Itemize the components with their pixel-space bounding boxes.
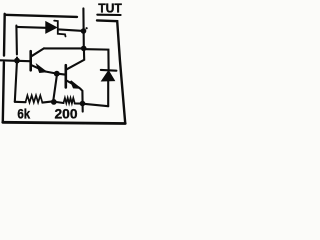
- node: emitter drop x bottom rail junction: [80, 101, 86, 107]
- node: rail x node-vertical junction: [51, 99, 57, 105]
- svg-text:6k: 6k: [17, 107, 30, 122]
- wire: diode D1 anode wire: [16, 26, 45, 29]
- wire: bottom rail right to diode D2: [83, 104, 109, 107]
- svg-text:TUT: TUT: [98, 0, 122, 15]
- node: rail x bus junction: [81, 46, 87, 52]
- wire: base lead from image edge: [0, 59, 30, 62]
- transistor Q2 base bar: [65, 65, 68, 87]
- transistor Q2 emitter path: [67, 81, 83, 112]
- wire: rail to emitter drop: [75, 102, 83, 104]
- wire: D2 branch from rail junction: [86, 49, 108, 69]
- wire: Q1 emitter to Q2 base: [45, 72, 65, 75]
- diode D2 triangle (pointing up): [102, 71, 115, 81]
- wire: collector terminal vertical bus: [82, 8, 85, 48]
- transistor Q1 collector diagonal: [32, 48, 44, 56]
- node: base lead x left vertical junction: [14, 58, 20, 64]
- diode D1 triangle: [46, 22, 57, 33]
- wire: collector rail: [44, 47, 84, 49]
- node: bus x diode wire junction: [81, 28, 87, 34]
- wire: diode D1 cathode to bus: [59, 29, 84, 31]
- transistor Q2 emitter arrowhead: [71, 81, 80, 88]
- wire: node vertical down to resistors: [53, 75, 57, 101]
- transistor Q1 base bar: [29, 51, 32, 70]
- wire: frame left edge (gap where base lead crosses): [3, 14, 5, 122]
- svg-text:200: 200: [55, 106, 78, 121]
- resistor R2 200 zigzag: [64, 98, 75, 104]
- transistor Q1 emitter arrowhead: [37, 65, 45, 72]
- resistor R1 6k zigzag: [26, 95, 43, 102]
- wire: TUT label underline: [97, 14, 120, 16]
- diode D2 cathode bar: [101, 69, 117, 72]
- transistor Q2 collector path: [67, 49, 85, 70]
- node: emitter node junction: [54, 71, 60, 77]
- transistor Q1 emitter diagonal: [32, 65, 46, 71]
- diode D1 cathode bar with zener hooks: [54, 21, 65, 37]
- node: stray scan dot: [86, 27, 88, 29]
- wire: D2 anode down to rail: [107, 81, 109, 106]
- wire: frame bottom edge: [3, 122, 125, 123]
- wire: frame top edge: [5, 15, 77, 17]
- wire: bottom rail left stub: [15, 101, 26, 103]
- wire: rail between resistors: [42, 101, 52, 102]
- wire: base/resistor left vertical: [15, 26, 17, 102]
- wire: frame right edge up to TUT terminal: [97, 20, 125, 123]
- wire: rail stub to R2: [53, 102, 64, 104]
